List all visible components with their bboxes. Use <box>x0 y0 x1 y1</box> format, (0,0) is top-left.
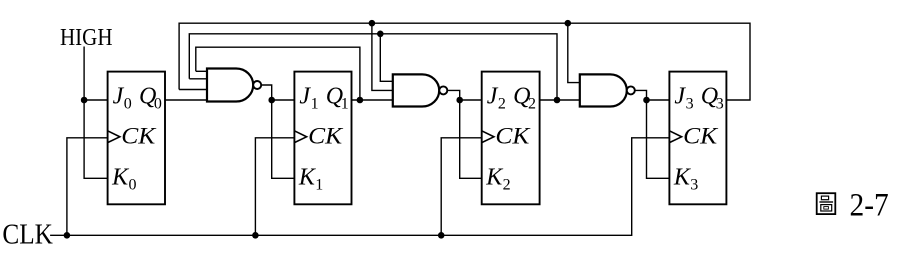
wire Q2 to G3 <box>540 99 580 101</box>
wire G1 output to J1 <box>272 99 295 101</box>
flip-flop FF2 box <box>482 72 540 205</box>
svg-text:CK: CK <box>495 124 530 150</box>
svg-text:3: 3 <box>716 96 724 113</box>
wire CLK bus <box>50 138 669 236</box>
wire Q3 feedback top line <box>179 23 750 100</box>
wire G2 input from Q3 line <box>372 23 393 90</box>
wire CLK to FF1 CK <box>255 138 294 236</box>
wire Q1 to G2 <box>352 99 393 101</box>
flip-flop FF0 box <box>108 72 165 205</box>
svg-text:1: 1 <box>315 177 323 194</box>
svg-text:2-7: 2-7 <box>850 188 889 224</box>
svg-text:2: 2 <box>528 96 536 113</box>
node Q2line-G2 junction <box>377 31 384 38</box>
wire G3 output to J3 <box>647 99 670 101</box>
svg-text:2: 2 <box>503 177 511 194</box>
node Q2line-Q2wire junction <box>554 97 561 104</box>
svg-text:0: 0 <box>124 96 132 113</box>
wire Q1 feedback line <box>196 47 360 100</box>
flip-flop FF0 clock triangle <box>108 131 120 143</box>
wire CLK to FF0 CK <box>67 138 108 236</box>
node Q1line-Q1wire junction <box>357 97 364 104</box>
wire G3 output to J3/K3 <box>635 90 670 178</box>
flip-flop FF2 clock triangle <box>482 131 494 143</box>
flip-flop FF1 box <box>294 72 351 205</box>
svg-text:1: 1 <box>341 96 349 113</box>
svg-text:CK: CK <box>308 124 343 150</box>
svg-text:J: J <box>674 84 686 110</box>
node CLK-FF0 junction <box>64 232 71 239</box>
wire HIGH vertical to J0/K0 <box>84 47 108 179</box>
nand gate G1 <box>207 69 253 102</box>
wire G2 output to J2 <box>460 99 482 101</box>
nand gate G3 <box>580 74 627 106</box>
svg-text:J: J <box>299 84 311 110</box>
svg-text:K: K <box>111 165 130 191</box>
node CLK-FF1 junction <box>252 232 259 239</box>
wire Q0 to G1 <box>165 99 207 101</box>
svg-text:0: 0 <box>129 177 137 194</box>
node HIGH-J0 junction <box>81 97 88 104</box>
svg-text:3: 3 <box>686 96 694 113</box>
node G2out-J2 junction <box>456 97 463 104</box>
svg-text:K: K <box>673 165 692 191</box>
svg-text:CK: CK <box>683 124 718 150</box>
label figure character tu (outer box) <box>817 193 836 214</box>
node CLK-FF2 junction <box>438 232 445 239</box>
svg-text:K: K <box>298 165 317 191</box>
svg-text:HIGH: HIGH <box>60 25 113 51</box>
svg-text:1: 1 <box>311 96 319 113</box>
svg-text:J: J <box>487 84 499 110</box>
flip-flop FF3 clock triangle <box>669 131 681 143</box>
wire G1 input stub 2 <box>189 78 207 80</box>
nand gate G3 bubble <box>627 86 635 94</box>
wire G2 output to J2/K2 <box>447 90 481 178</box>
svg-text:0: 0 <box>154 96 162 113</box>
nand gate G1 bubble <box>253 81 261 89</box>
flip-flop FF3 box <box>669 72 726 205</box>
svg-text:2: 2 <box>498 96 506 113</box>
wire G1 input stub 3 <box>179 89 207 91</box>
svg-text:CLK: CLK <box>2 219 53 251</box>
wire Q2 feedback line <box>189 34 557 100</box>
nand gate G2 <box>393 74 439 106</box>
wire G1 input stub top <box>196 70 207 72</box>
wire G2 input from Q2 line <box>380 34 393 82</box>
wire CLK to FF2 CK <box>441 138 482 236</box>
flip-flop FF1 clock triangle <box>294 131 306 143</box>
node Q3line-G3 junction <box>565 20 572 27</box>
svg-text:CK: CK <box>121 124 156 150</box>
node G3out-J3 junction <box>643 97 650 104</box>
svg-text:J: J <box>113 84 125 110</box>
wire G1 output to J1/K1 <box>261 85 294 178</box>
svg-text:K: K <box>485 165 504 191</box>
node G1out-J1 junction <box>268 97 275 104</box>
node Q3line-G2 junction <box>369 20 376 27</box>
wire HIGH to J0 <box>84 99 108 101</box>
svg-text:3: 3 <box>690 177 698 194</box>
wire G3 input from Q3 line <box>568 23 580 82</box>
nand gate G2 bubble <box>439 86 447 94</box>
